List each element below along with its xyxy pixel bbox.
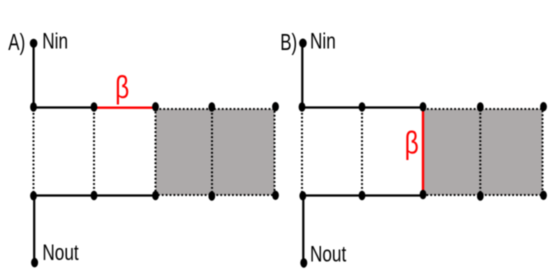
svg-text:Nin: Nin — [42, 29, 68, 54]
svg-text:Nout: Nout — [310, 243, 347, 268]
svg-text:Nout: Nout — [42, 241, 79, 266]
svg-text:Nin: Nin — [310, 29, 336, 54]
svg-text:β: β — [405, 125, 419, 161]
svg-text:A): A) — [8, 29, 25, 55]
svg-text:B): B) — [280, 29, 297, 55]
svg-text:β: β — [115, 69, 129, 105]
